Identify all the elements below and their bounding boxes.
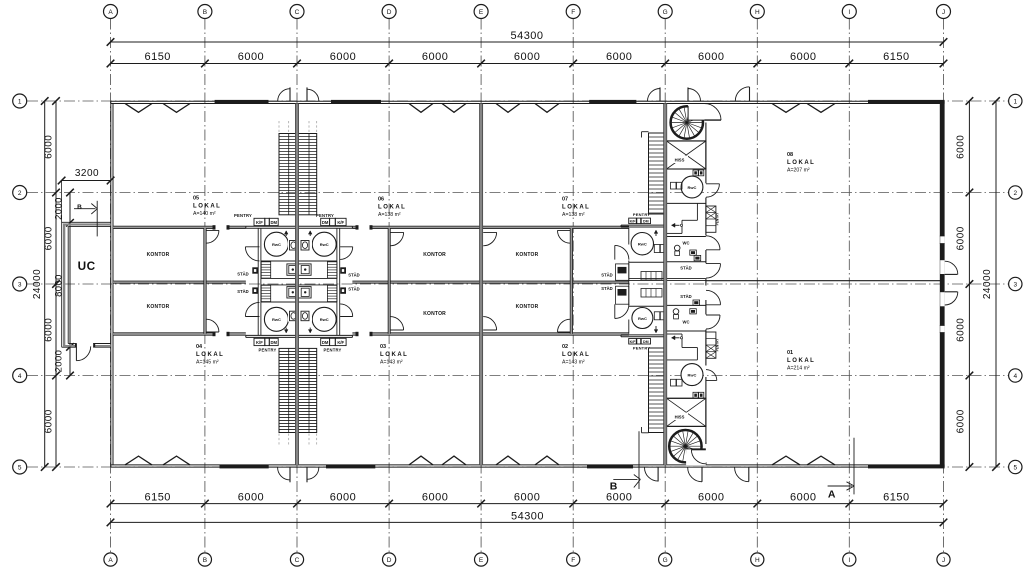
window zigzag bottom 1 <box>125 456 152 465</box>
bubble 1 left <box>13 94 27 108</box>
outer wall left <box>111 101 113 467</box>
door G RWC NW <box>615 245 629 259</box>
G bench NW <box>641 272 662 281</box>
G STAD top room <box>680 255 700 270</box>
svg-text:I: I <box>848 557 850 564</box>
section marker B left <box>74 201 97 237</box>
label KONTOR 158,306.5 <box>147 304 170 310</box>
bubble J top <box>937 5 951 19</box>
door top C right <box>307 87 319 101</box>
svg-text:A: A <box>108 9 113 16</box>
svg-text:DM: DM <box>322 340 329 345</box>
C core door SW <box>245 302 259 316</box>
bubble 3 right <box>1009 277 1022 290</box>
svg-text:6000: 6000 <box>238 491 264 503</box>
svg-text:KONTOR: KONTOR <box>516 252 539 258</box>
grid column B <box>204 19 206 554</box>
svg-text:J: J <box>942 9 945 16</box>
C core bench hatch lower <box>261 285 337 301</box>
bubble 4 left <box>13 369 27 383</box>
svg-text:D: D <box>387 557 392 564</box>
grid row 3 <box>27 283 1009 285</box>
bubble F bottom <box>567 553 580 566</box>
G core right boundary wall <box>705 104 707 466</box>
label LOKAL 02 <box>562 344 589 365</box>
svg-text:4: 4 <box>18 373 22 380</box>
window zigzag top 8 <box>807 104 835 113</box>
bubble 1 right <box>1009 94 1022 107</box>
svg-text:L O K A L: L O K A L <box>787 160 814 166</box>
svg-text:6000: 6000 <box>330 51 356 63</box>
svg-text:KONTOR: KONTOR <box>423 252 446 258</box>
door gap G right wall <box>705 104 707 123</box>
svg-text:RwC: RwC <box>638 316 647 321</box>
spiral stair top <box>671 104 705 139</box>
svg-text:04: 04 <box>196 344 203 350</box>
svg-text:HISS: HISS <box>675 415 685 420</box>
svg-text:08: 08 <box>787 152 793 158</box>
svg-text:I: I <box>848 9 850 16</box>
outer wall right black <box>940 101 945 467</box>
door right wall lower <box>940 292 958 307</box>
bubble 4 right <box>1009 369 1022 382</box>
C core toilet pair top <box>288 240 312 252</box>
svg-text:WC: WC <box>683 241 690 246</box>
UC door <box>76 346 90 360</box>
section line A bottom <box>853 438 855 495</box>
wall column F <box>570 228 572 334</box>
dimension chain left 6000x4 <box>44 97 60 471</box>
svg-text:K/F: K/F <box>337 220 344 225</box>
svg-text:A=138 m²: A=138 m² <box>562 212 585 218</box>
svg-text:B: B <box>77 204 82 211</box>
svg-text:6150: 6150 <box>144 51 170 63</box>
window gap right wall 1 <box>940 236 945 244</box>
party wall G <box>664 104 667 465</box>
dimension chain top 6150/6000 <box>107 51 948 67</box>
svg-text:STÄD: STÄD <box>601 286 612 291</box>
outer wall top <box>111 101 944 103</box>
svg-text:54300: 54300 <box>510 30 543 42</box>
bubble 5 left <box>13 460 27 474</box>
HISS top <box>667 141 706 169</box>
svg-text:6000: 6000 <box>956 409 967 433</box>
wall column D <box>388 228 390 334</box>
window zigzag bottom 8 <box>807 456 835 465</box>
dimension 24000 right <box>982 97 1000 471</box>
svg-text:B: B <box>203 9 207 16</box>
G corridor bottom walls <box>667 334 698 360</box>
svg-text:RwC: RwC <box>688 185 697 190</box>
door wall F lower <box>558 319 571 332</box>
svg-text:PENTRY: PENTRY <box>258 348 276 353</box>
svg-text:24000: 24000 <box>32 269 43 299</box>
svg-text:STÄD: STÄD <box>348 273 359 278</box>
svg-text:A=143 m²: A=143 m² <box>380 359 403 365</box>
svg-text:A=214 m²: A=214 m² <box>787 365 810 371</box>
window zigzag top 7 <box>772 104 800 113</box>
svg-text:STÄD: STÄD <box>348 287 359 292</box>
svg-text:E: E <box>479 9 484 16</box>
svg-text:KONTOR: KONTOR <box>516 304 539 310</box>
svg-text:54300: 54300 <box>511 511 544 523</box>
svg-text:6000: 6000 <box>790 491 816 503</box>
G STAD label NW <box>601 273 612 278</box>
svg-text:1: 1 <box>1013 99 1017 106</box>
door gap G right wall <box>705 263 707 278</box>
C core door NE <box>340 247 353 260</box>
HISS bottom <box>667 398 706 426</box>
bubble 3 left <box>13 277 27 291</box>
door G RWC SW <box>615 304 629 318</box>
G closet SW <box>616 286 629 304</box>
svg-text:6000: 6000 <box>422 491 448 503</box>
door right wall upper <box>940 260 958 274</box>
svg-text:6000: 6000 <box>238 51 264 63</box>
stair G lower <box>649 348 666 433</box>
G pentry cabinet top <box>706 206 720 232</box>
svg-text:G: G <box>663 557 668 564</box>
section marker A bottom <box>828 482 855 501</box>
G spiral box top <box>666 104 706 142</box>
window zigzag top 5 <box>496 104 520 113</box>
interior wall rooms top y227 <box>113 225 629 229</box>
svg-text:HISS: HISS <box>675 158 685 163</box>
svg-text:STÄD: STÄD <box>237 289 248 294</box>
door top G 1 <box>648 87 661 101</box>
G core mid wall row3 <box>629 279 706 281</box>
G pentry cabinet bottom <box>706 332 720 358</box>
svg-text:06: 06 <box>378 197 384 203</box>
label KONTOR 434.6,313.5 <box>423 311 446 317</box>
svg-text:J: J <box>942 557 945 564</box>
svg-text:05: 05 <box>193 196 199 202</box>
svg-text:L O K A L: L O K A L <box>380 352 407 358</box>
svg-text:RwC: RwC <box>320 317 329 322</box>
C core toilet pair bottom <box>288 310 312 322</box>
svg-text:F: F <box>571 557 575 564</box>
door G STAD bottom <box>706 290 721 305</box>
door bottom G 1 <box>645 468 659 482</box>
door top G 3 <box>735 87 749 101</box>
window zigzag bottom 7 <box>772 456 800 465</box>
window zigzag bottom 3 <box>409 456 433 465</box>
door bottom C right <box>307 468 319 483</box>
G WC bottom room <box>667 309 706 331</box>
stair C lower <box>279 348 317 432</box>
svg-text:DM: DM <box>270 220 277 225</box>
door bottom C left <box>278 468 290 483</box>
svg-text:2000: 2000 <box>54 350 65 373</box>
door gap G right wall <box>705 286 707 301</box>
dimension 24000 left <box>32 97 49 471</box>
door wall D lower <box>390 317 403 330</box>
svg-text:01: 01 <box>787 350 793 356</box>
door top C left <box>278 87 290 101</box>
G core left boundary wall <box>628 228 630 334</box>
C core wall right <box>337 228 340 335</box>
svg-text:B: B <box>610 481 618 493</box>
svg-text:03: 03 <box>380 344 386 350</box>
svg-text:DM: DM <box>270 340 277 345</box>
door gap G right wall <box>705 315 707 330</box>
C core entry arrows top <box>284 231 312 236</box>
G RWC SE room <box>667 364 706 399</box>
C core counter top <box>246 226 353 228</box>
grid column C <box>296 19 298 554</box>
label LOKAL 08 <box>787 152 814 173</box>
C core door NW <box>245 247 259 261</box>
bubble A top <box>104 5 118 19</box>
grid column J <box>943 19 945 554</box>
C core bench hatch upper <box>261 262 337 278</box>
bubble F top <box>566 5 580 19</box>
grid column E <box>480 19 482 554</box>
C core STAD closet 3 <box>340 267 346 273</box>
C core door SE <box>340 304 353 317</box>
svg-text:STÄD: STÄD <box>601 273 612 278</box>
svg-text:RwC: RwC <box>320 242 329 247</box>
party wall C <box>295 104 298 465</box>
C core RWC circle 2 <box>312 232 336 256</box>
window zigzag top 3 <box>409 104 433 113</box>
C core RWC circle 1 <box>264 232 288 256</box>
svg-text:5: 5 <box>1013 465 1017 472</box>
door gap G right wall <box>705 236 707 251</box>
spiral stair bottom <box>669 430 706 465</box>
svg-text:RwC: RwC <box>272 242 281 247</box>
bubble C bottom <box>290 553 303 566</box>
bubble H top <box>750 5 764 19</box>
svg-text:6150: 6150 <box>883 491 909 503</box>
bubble H bottom <box>751 553 764 566</box>
door spiral top <box>688 104 721 121</box>
svg-text:DM: DM <box>643 340 649 344</box>
black wall segment bottom 1 <box>220 465 269 469</box>
svg-text:02: 02 <box>562 344 568 350</box>
svg-text:DM: DM <box>322 220 329 225</box>
svg-text:PENTRY: PENTRY <box>323 348 341 353</box>
svg-text:WC: WC <box>683 320 690 325</box>
svg-text:4: 4 <box>1013 373 1017 380</box>
svg-text:RwC: RwC <box>688 372 697 377</box>
stair G lower stub <box>642 427 649 433</box>
G bench SW <box>641 289 662 298</box>
black wall segment top 3 <box>589 100 636 104</box>
dimension 54300 top <box>107 30 948 46</box>
stair G upper stub <box>642 132 649 138</box>
svg-text:K/F: K/F <box>337 340 344 345</box>
C core STAD closet 4 <box>340 287 346 293</box>
interior wall rooms bottom y334 <box>113 332 629 336</box>
black wall segment top 4 <box>868 100 945 104</box>
svg-text:PENTRY: PENTRY <box>316 213 334 218</box>
window zigzag bottom 2 <box>163 456 190 465</box>
svg-text:RwC: RwC <box>272 317 281 322</box>
svg-text:H: H <box>755 9 760 16</box>
bubble G bottom <box>659 553 672 566</box>
wall LOKAL 08/01 separator <box>706 280 940 282</box>
dimension chain right 6000x4 <box>956 97 974 471</box>
label KONTOR 527,254.5 <box>516 252 539 258</box>
dimension chain bottom 6150/6000 <box>107 491 948 507</box>
door G WC bottom <box>706 315 720 329</box>
svg-text:6150: 6150 <box>144 491 170 503</box>
svg-text:6000: 6000 <box>44 135 55 159</box>
svg-text:A: A <box>828 489 836 501</box>
bubble G top <box>658 5 672 19</box>
grid column D <box>388 19 390 554</box>
svg-text:6000: 6000 <box>956 226 967 250</box>
svg-text:KONTOR: KONTOR <box>423 311 446 317</box>
svg-text:G: G <box>663 9 668 16</box>
svg-text:A=140 m²: A=140 m² <box>193 211 216 217</box>
svg-text:6000: 6000 <box>44 226 55 250</box>
outer wall bottom <box>111 465 944 467</box>
svg-text:6000: 6000 <box>606 491 632 503</box>
svg-text:L O K A L: L O K A L <box>378 205 405 211</box>
black wall segment top 2 <box>331 100 381 104</box>
G counter bottom <box>621 335 666 337</box>
door gap G right wall <box>705 444 707 462</box>
svg-text:KONTOR: KONTOR <box>147 252 170 258</box>
svg-text:L O K A L: L O K A L <box>562 205 589 211</box>
svg-text:1: 1 <box>18 99 22 106</box>
door bottom G 3 <box>735 468 749 482</box>
svg-text:6150: 6150 <box>883 51 909 63</box>
door wall F upper <box>558 230 571 243</box>
stair C upper dashed continuation <box>279 121 317 133</box>
C core RWC circle 3 <box>264 307 288 331</box>
C core entry arrows bottom <box>284 328 312 333</box>
door wall B lower <box>206 319 219 332</box>
svg-text:K/F: K/F <box>256 220 263 225</box>
svg-text:2: 2 <box>18 190 22 197</box>
svg-text:K/F: K/F <box>630 220 637 224</box>
black wall segment top 1 <box>215 100 269 104</box>
door G WC top <box>706 236 720 250</box>
svg-text:UC: UC <box>78 259 96 273</box>
svg-text:F: F <box>571 9 575 16</box>
G closet NW <box>616 264 629 280</box>
svg-text:STÄD: STÄD <box>680 266 691 271</box>
bubble E bottom <box>475 553 488 566</box>
G WC top room <box>667 237 706 262</box>
svg-text:6000: 6000 <box>514 51 540 63</box>
door wall B upper <box>206 230 219 243</box>
door G RWC SE <box>706 370 717 381</box>
svg-text:K/F: K/F <box>256 340 263 345</box>
G corridor arrow top <box>672 223 683 227</box>
grid column F <box>572 19 574 554</box>
door spiral bottom <box>691 450 705 464</box>
grid row 5 <box>27 466 1009 468</box>
svg-text:2: 2 <box>1013 190 1017 197</box>
C core sink box lower <box>287 286 312 298</box>
svg-text:DM: DM <box>643 220 649 224</box>
bubble D top <box>382 5 396 19</box>
G counter top <box>621 225 666 227</box>
grid column A <box>110 19 112 554</box>
G corridor top walls <box>667 203 698 233</box>
svg-text:24000: 24000 <box>982 269 993 299</box>
svg-text:STÄD: STÄD <box>680 294 691 299</box>
bubble I top <box>842 5 856 19</box>
black wall segment bottom 4 <box>868 465 945 469</box>
svg-text:L O K A L: L O K A L <box>196 352 223 358</box>
C core inner walls <box>261 261 337 302</box>
svg-text:3: 3 <box>18 282 22 289</box>
svg-text:PENTRY: PENTRY <box>716 338 720 352</box>
svg-text:B: B <box>203 557 207 564</box>
svg-text:A=143 m²: A=143 m² <box>562 359 585 365</box>
label LOKAL 06 <box>378 197 405 218</box>
svg-text:6000: 6000 <box>44 318 55 342</box>
svg-text:6000: 6000 <box>698 51 724 63</box>
label KONTOR 434.6,254.5 <box>423 252 446 258</box>
UC room walls <box>62 222 111 347</box>
grid row 4 <box>27 375 1009 377</box>
bubble 2 left <box>13 186 27 200</box>
door wall E upper <box>483 232 496 245</box>
G RWC SW room <box>629 306 666 333</box>
dimension chain left 2000/8000/2000 <box>54 189 74 380</box>
C core sink box upper <box>287 264 312 276</box>
label KONTOR 527,306.5 <box>516 304 539 310</box>
bubble E top <box>474 5 488 19</box>
svg-text:L O K A L: L O K A L <box>787 358 814 364</box>
door G STAD top <box>706 264 721 279</box>
svg-text:E: E <box>479 557 484 564</box>
svg-text:C: C <box>295 9 300 16</box>
svg-text:2000: 2000 <box>54 197 65 220</box>
G STAD bottom room <box>667 294 706 305</box>
svg-text:6000: 6000 <box>330 491 356 503</box>
svg-text:6000: 6000 <box>422 51 448 63</box>
section marker B bottom <box>610 475 641 493</box>
bubble I bottom <box>843 553 856 566</box>
svg-text:6000: 6000 <box>790 51 816 63</box>
svg-text:6000: 6000 <box>606 51 632 63</box>
C core STAD closet 1 <box>252 267 258 273</box>
bubble 5 right <box>1009 460 1022 473</box>
svg-text:KONTOR: KONTOR <box>147 304 170 310</box>
svg-text:6000: 6000 <box>44 409 55 433</box>
svg-text:A=138 m²: A=138 m² <box>378 212 401 218</box>
stair G upper <box>649 133 666 214</box>
grid column I <box>848 19 850 554</box>
svg-text:PENTRY: PENTRY <box>633 212 650 217</box>
svg-text:6000: 6000 <box>956 135 967 159</box>
G RWC NE room <box>667 169 706 203</box>
door bottom G 2 <box>688 468 702 482</box>
svg-text:6000: 6000 <box>956 318 967 342</box>
wall column B <box>204 228 206 334</box>
stair C upper <box>279 134 317 215</box>
window zigzag top 2 <box>163 104 190 113</box>
grid row 2 <box>27 192 1009 194</box>
door top G 2 <box>688 87 701 101</box>
label LOKAL 05 <box>193 196 220 217</box>
UC label <box>78 259 96 273</box>
G pentry boxes bottom <box>629 339 651 351</box>
G corridor arrow bottom <box>672 336 683 340</box>
window zigzag top 4 <box>442 104 466 113</box>
label LOKAL 04 <box>196 344 223 365</box>
window zigzag top 1 <box>125 104 152 113</box>
svg-text:07: 07 <box>562 197 568 203</box>
svg-text:STÄD: STÄD <box>237 272 248 277</box>
